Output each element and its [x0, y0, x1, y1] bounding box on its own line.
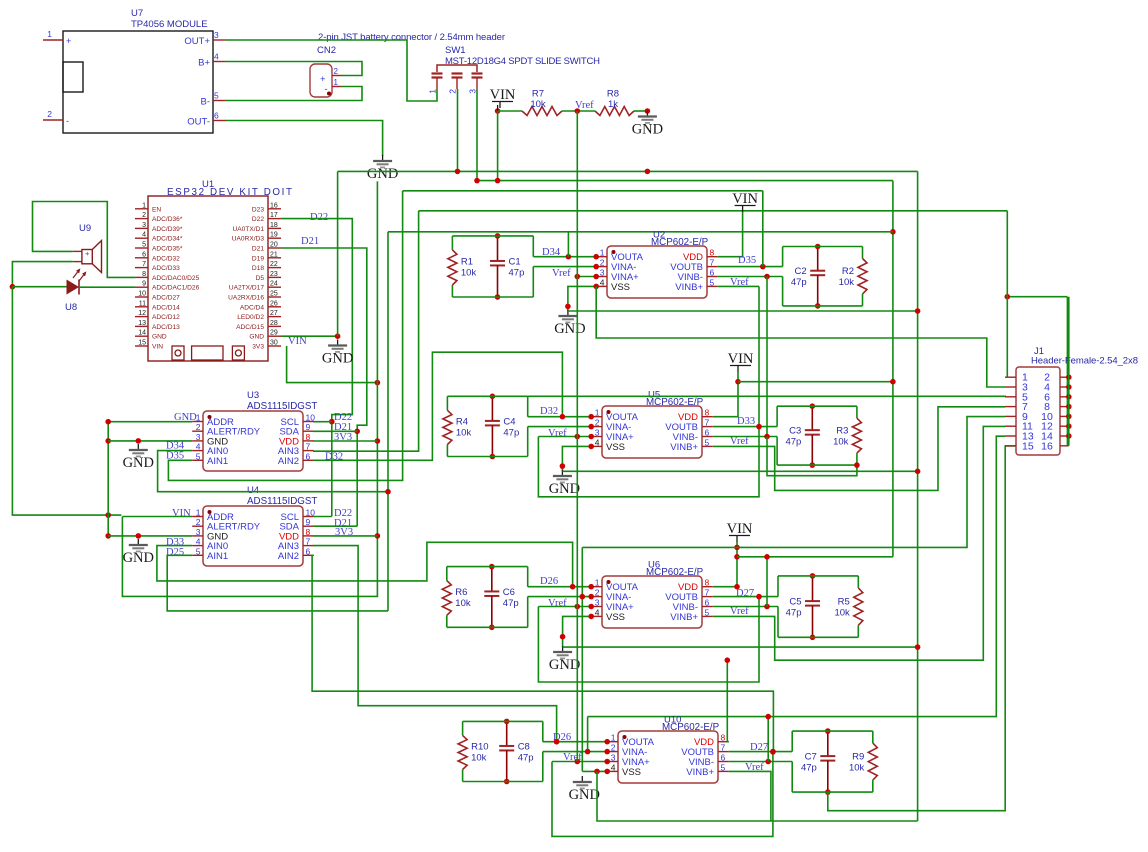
button footprint left on U1 — [172, 346, 184, 360]
svg-text:7: 7 — [721, 743, 726, 753]
pin 4 of J1 — [1060, 386, 1069, 388]
svg-text:D35: D35 — [738, 255, 756, 266]
pin 22 of U1 D18 — [268, 267, 281, 269]
svg-text:23: 23 — [270, 271, 278, 278]
resistor R3 10k — [856, 406, 858, 418]
svg-text:C6: C6 — [503, 587, 515, 598]
wire VIN horizontal at U6 — [737, 556, 893, 558]
wire RC loop top — [463, 720, 543, 722]
pin 5 of U1 ADC/D35* — [135, 247, 148, 249]
pin 3 of J1 — [1005, 386, 1016, 388]
pin 30 of U1 3V3 — [268, 345, 281, 347]
svg-text:4: 4 — [600, 277, 605, 287]
svg-text:ADC/DAC1/D26: ADC/DAC1/D26 — [152, 285, 200, 292]
svg-text:2: 2 — [47, 109, 52, 119]
wire Vref to U10 pin3 — [552, 761, 607, 763]
svg-text:4: 4 — [214, 52, 219, 62]
module U7 TP4056 — [63, 31, 213, 133]
wire VIN to R7 — [498, 110, 522, 112]
svg-text:OUT+: OUT+ — [184, 36, 210, 47]
svg-text:5: 5 — [214, 91, 219, 101]
svg-text:28: 28 — [270, 320, 278, 327]
wire U10 pin5 VINB+ — [729, 771, 771, 821]
svg-text:4: 4 — [142, 232, 146, 239]
wire Vref U-loop under U6 — [538, 597, 759, 682]
wire U6 pin5 VINB+ to J1 pin11 — [713, 426, 1005, 660]
pin 4 of U6 VSS — [591, 615, 602, 617]
wire U9 plus to ESP pin8 — [33, 202, 136, 278]
pin 15 of J1 — [1005, 445, 1016, 447]
pin 8 of U3 VDD — [303, 440, 314, 442]
pin 1 of U3 ADDR — [192, 421, 203, 423]
wire chain U2 pin6 down — [766, 277, 768, 436]
svg-text:1: 1 — [595, 408, 600, 418]
svg-text:18: 18 — [270, 222, 278, 229]
svg-text:U9: U9 — [79, 223, 91, 234]
svg-text:47p: 47p — [509, 267, 525, 278]
svg-text:Vref: Vref — [563, 752, 582, 763]
pin 3 of U4 GND — [192, 535, 203, 537]
svg-text:GND: GND — [249, 334, 264, 341]
wire U3 pin10 D22 — [313, 421, 332, 423]
svg-text:VSS: VSS — [606, 442, 625, 453]
ground GND at U6 — [562, 646, 564, 652]
svg-text:7: 7 — [710, 258, 715, 268]
pin 18 of U1 UA0TX/D1 — [268, 227, 281, 229]
wire LED anode — [12, 286, 66, 288]
wire U5 pin5 VINB+ to J1 pin7 — [713, 407, 1005, 491]
svg-text:10k: 10k — [456, 427, 472, 438]
pin 7 of U1 ADC/D33 — [135, 267, 148, 269]
wire J1 pin13 chain to U10 pin2 — [588, 436, 1005, 716]
pin 2 of U6 VINA- — [591, 596, 602, 598]
pin 8 of U6 VDD — [702, 586, 713, 588]
op-amp U10 MCP602-E/P — [618, 731, 718, 783]
svg-text:R8: R8 — [607, 89, 619, 100]
wire D21 from ESP pin20 — [281, 248, 367, 526]
wire VIN bus B — [477, 180, 893, 182]
svg-text:AIN1: AIN1 — [207, 456, 228, 467]
wire D34 vertical drop — [567, 232, 569, 257]
svg-text:1: 1 — [142, 202, 146, 209]
svg-text:5: 5 — [710, 277, 715, 287]
svg-text:VSS: VSS — [606, 612, 625, 623]
svg-text:5: 5 — [721, 762, 726, 772]
wire OUT- to GND — [225, 121, 383, 157]
ground GND at U2 — [567, 310, 569, 316]
wire U6 pin4 VSS to GND — [563, 616, 592, 647]
wire VIN to U2 pin8 — [718, 212, 743, 257]
svg-text:4: 4 — [196, 442, 201, 452]
svg-text:R4: R4 — [456, 416, 468, 427]
pin 13 of U1 ADC/D13 — [135, 325, 148, 327]
wire C8 loop to U10 pin2 — [543, 751, 607, 753]
wire U4 pin1 VIN — [122, 516, 192, 518]
resistor R9 10k — [872, 731, 874, 743]
pin 6 of J1 — [1060, 396, 1069, 398]
svg-text:CN2: CN2 — [317, 45, 336, 56]
wire Vref bus main vertical — [576, 111, 578, 762]
wire U5 VIN to right vertical — [738, 381, 893, 383]
wire U3 pin5 D35 stair — [168, 191, 402, 481]
wire RC loop bottom — [777, 464, 857, 466]
svg-text:U8: U8 — [65, 302, 77, 313]
pin 5 of U4 AIN1 — [192, 554, 203, 556]
pin 4 of U3 AIN0 — [192, 450, 203, 452]
wire R7 to Vref node — [562, 110, 595, 112]
svg-text:6: 6 — [721, 753, 726, 763]
svg-text:AIN1: AIN1 — [207, 551, 228, 562]
wire VIN to U5 pin8 — [713, 372, 738, 417]
IC U3 ADS1115IDGST — [203, 411, 303, 471]
wire U4 pin3 GND — [108, 535, 192, 537]
svg-text:+: + — [85, 249, 90, 258]
svg-text:C3: C3 — [789, 426, 801, 437]
pin 1 of U5 VOUTA — [591, 416, 602, 418]
svg-text:GND: GND — [632, 122, 663, 138]
svg-text:3: 3 — [196, 432, 201, 442]
pin 7 of U2 VOUTB — [707, 266, 718, 268]
op-amp U6 MCP602-E/P — [602, 576, 702, 628]
svg-text:3: 3 — [595, 428, 600, 438]
pin 7 of U5 VOUTB — [702, 426, 713, 428]
pin 16 of U1 D23 — [268, 208, 281, 210]
IC U1 ESP32 DEV KIT DOIT — [148, 196, 268, 361]
svg-text:8: 8 — [705, 578, 710, 588]
svg-text:D21: D21 — [252, 246, 264, 253]
svg-text:5: 5 — [196, 546, 201, 556]
wire RC loop bottom — [447, 456, 527, 458]
svg-text:D26: D26 — [540, 576, 558, 587]
wire RC loop top — [783, 246, 863, 248]
pin 5 of U10 VINB+ — [718, 770, 729, 772]
svg-text:D32: D32 — [540, 406, 558, 417]
svg-text:VINB+: VINB+ — [675, 282, 703, 293]
svg-text:47p: 47p — [791, 277, 807, 288]
pin stubs of U9 — [73, 250, 82, 252]
wire Vref to U6 pin3 — [538, 606, 591, 608]
svg-text:1: 1 — [428, 89, 438, 94]
svg-text:ADC/D15: ADC/D15 — [236, 324, 264, 331]
svg-text:D23: D23 — [252, 206, 264, 213]
svg-text:7: 7 — [705, 588, 710, 598]
svg-text:VIN: VIN — [727, 521, 753, 537]
svg-text:Vref: Vref — [730, 436, 749, 447]
wire Vref U-loop under U5 — [538, 427, 759, 497]
svg-text:15: 15 — [138, 340, 146, 347]
svg-text:11: 11 — [139, 300, 146, 307]
pin 2 of U5 VINA- — [591, 426, 602, 428]
wire U2 pin5 VINB+ — [718, 285, 759, 287]
svg-text:UA0RX/D3: UA0RX/D3 — [232, 236, 265, 243]
svg-text:GND: GND — [322, 351, 353, 367]
svg-text:VSS: VSS — [611, 282, 630, 293]
svg-text:2: 2 — [196, 517, 201, 527]
svg-text:VINB+: VINB+ — [670, 612, 698, 623]
pin 2 of U7 (-) — [43, 119, 63, 121]
svg-text:ADC/D35*: ADC/D35* — [152, 246, 183, 253]
svg-text:3: 3 — [196, 527, 201, 537]
svg-text:21: 21 — [270, 251, 278, 258]
wire LED net down left — [12, 287, 121, 515]
capacitor C5 47p — [812, 576, 814, 601]
svg-text:2: 2 — [595, 588, 600, 598]
wire U3 pin3 GND — [108, 440, 192, 442]
svg-text:Vref: Vref — [548, 598, 567, 609]
pin 29 of U1 GND — [268, 335, 281, 337]
svg-text:17: 17 — [270, 212, 278, 219]
svg-text:4: 4 — [595, 437, 600, 447]
ground GND at U7 OUT- — [382, 155, 384, 161]
pin 20 of U1 D21 — [268, 247, 281, 249]
svg-text:VINB+: VINB+ — [670, 442, 698, 453]
pin 6 of U10 VINB- — [718, 761, 729, 763]
svg-text:27: 27 — [270, 310, 278, 317]
capacitor C8 47p — [506, 721, 508, 746]
svg-text:5: 5 — [705, 437, 710, 447]
svg-text:EN: EN — [152, 206, 161, 213]
svg-text:UA2RX/D16: UA2RX/D16 — [228, 295, 264, 302]
ground GND at ESP pin29 — [337, 340, 339, 346]
resistor R1 10k — [451, 236, 453, 250]
pin 9 of U1 ADC/DAC1/D26 — [135, 286, 148, 288]
svg-text:10k: 10k — [530, 99, 546, 110]
svg-text:U3: U3 — [247, 390, 259, 401]
wire B+ to CN2 pin2 — [225, 62, 362, 76]
wire OUT+ to SW1 pin1 — [225, 40, 437, 101]
svg-text:ADC/D32: ADC/D32 — [152, 255, 180, 262]
svg-text:3: 3 — [142, 222, 146, 229]
svg-text:3: 3 — [468, 89, 478, 94]
svg-text:47p: 47p — [503, 427, 519, 438]
pin 13 of J1 — [1005, 435, 1016, 437]
wire GND bus stage1 — [568, 310, 918, 312]
pin 2 of U2 VINA- — [596, 266, 607, 268]
resistor R8 1k — [595, 107, 634, 116]
svg-text:5: 5 — [196, 451, 201, 461]
wire RC loop left edge — [791, 731, 793, 752]
pin 8 of U10 VDD — [718, 741, 729, 743]
svg-text:UA2TX/D17: UA2TX/D17 — [229, 285, 265, 292]
wire bus C drop to U2 pin7 — [762, 191, 764, 267]
svg-text:LED0/D2: LED0/D2 — [237, 314, 264, 321]
wire U2 pin6 VINB- — [718, 276, 783, 278]
button footprint right on U1 — [232, 346, 244, 360]
svg-text:AIN2: AIN2 — [278, 456, 299, 467]
svg-text:OUT-: OUT- — [187, 117, 210, 128]
wire LED cathode to ESP pin9 — [79, 286, 135, 288]
wire VIN flag down to VIN bus — [497, 111, 499, 181]
svg-text:D25: D25 — [166, 547, 184, 558]
pin 12 of J1 — [1060, 425, 1069, 427]
op-amp U5 MCP602-E/P — [602, 406, 702, 458]
pin 4 of U7 B+ — [213, 61, 225, 63]
pin 6 of U5 VINB- — [702, 436, 713, 438]
pin 11 of J1 — [1005, 425, 1016, 427]
svg-text:6: 6 — [705, 598, 710, 608]
svg-text:1: 1 — [196, 508, 201, 518]
wire RC loop left edge — [776, 406, 778, 426]
svg-text:-: - — [66, 116, 69, 126]
wire U9 minus — [12, 262, 72, 287]
wire U10 pin6 VINB- — [729, 761, 792, 763]
wire RC loop top — [778, 575, 858, 577]
svg-text:R1: R1 — [461, 256, 473, 267]
wire C1 loop to U2 pin2 — [533, 266, 596, 268]
pin 3 of U7 OUT+ — [213, 39, 225, 41]
svg-text:8: 8 — [705, 408, 710, 418]
svg-text:2: 2 — [611, 743, 616, 753]
wire J1 top horizontal — [419, 210, 1008, 212]
svg-text:AIN2: AIN2 — [278, 551, 299, 562]
capacitor C6 47p — [491, 567, 493, 592]
svg-text:C7: C7 — [805, 752, 817, 763]
svg-text:ADS1115IDGST: ADS1115IDGST — [247, 496, 317, 507]
svg-text:C8: C8 — [518, 741, 530, 752]
pin 8 of J1 — [1060, 406, 1069, 408]
svg-text:3: 3 — [595, 598, 600, 608]
svg-text:MCP602-E/P: MCP602-E/P — [646, 397, 704, 408]
svg-text:16: 16 — [1041, 440, 1053, 452]
svg-text:2: 2 — [448, 89, 458, 94]
svg-text:1: 1 — [47, 29, 52, 39]
wire RC loop left edge — [782, 247, 784, 267]
svg-text:+: + — [66, 36, 71, 46]
ground GND at U5 — [561, 470, 563, 476]
wire SW1 pin3 to VIN bus — [476, 89, 478, 181]
svg-text:MCP602-E/P: MCP602-E/P — [651, 237, 709, 248]
pin 5 of U7 B- — [213, 100, 225, 102]
wire U10 pin3 tail down — [552, 752, 773, 837]
pin 27 of U1 LED0/D2 — [268, 316, 281, 318]
pin 7 of U10 VOUTB — [718, 751, 729, 753]
pin 21 of U1 D19 — [268, 257, 281, 259]
svg-text:SW1: SW1 — [445, 45, 466, 56]
svg-text:6: 6 — [705, 428, 710, 438]
pin 1 of U6 VOUTA — [591, 586, 602, 588]
svg-text:C4: C4 — [503, 416, 515, 427]
capacitor C3 47p — [811, 406, 813, 430]
svg-text:B+: B+ — [198, 58, 210, 69]
svg-text:5: 5 — [705, 607, 710, 617]
wire U4 pin7 chain to U10 pin1 — [313, 546, 557, 742]
svg-text:MCP602-E/P: MCP602-E/P — [662, 722, 720, 733]
svg-text:1: 1 — [334, 78, 339, 87]
pin 5 of U2 VINB+ — [707, 285, 718, 287]
ground GND at U3 — [137, 444, 139, 450]
svg-text:10k: 10k — [455, 598, 471, 609]
pin 1 of U4 ADDR — [192, 516, 203, 518]
wire 3V3 vertical — [122, 181, 377, 596]
svg-text:1k: 1k — [608, 99, 618, 110]
svg-text:VIN: VIN — [172, 508, 191, 519]
wire U2 pin7 VOUTB — [718, 266, 783, 268]
svg-text:C2: C2 — [795, 266, 807, 277]
wire C6 loop to U6 pin2 — [528, 596, 592, 598]
svg-text:ADC/D13: ADC/D13 — [152, 324, 180, 331]
svg-text:D34: D34 — [542, 247, 561, 258]
wire RC loop right exits — [532, 236, 534, 257]
pin 3 of U3 GND — [192, 440, 203, 442]
wire U3 pin6 D32 — [313, 352, 562, 460]
pin 12 of U1 ADC/D12 — [135, 316, 148, 318]
wire U10 pin4 VSS to GND — [582, 770, 607, 772]
svg-text:9: 9 — [306, 517, 311, 527]
svg-text:GND: GND — [554, 321, 585, 337]
svg-text:VIN: VIN — [732, 191, 758, 207]
wire RC loop top — [792, 730, 873, 732]
wire D26 into U6 pin1 — [528, 586, 592, 588]
svg-text:ADC/D36*: ADC/D36* — [152, 216, 183, 223]
wire RC loop right exits — [527, 567, 529, 587]
svg-text:47p: 47p — [785, 437, 801, 448]
wire vertical to U10 GND — [581, 547, 583, 771]
svg-text:VIN: VIN — [490, 87, 516, 103]
pin 1 of J1 — [1005, 376, 1016, 378]
pin 25 of U1 UA2RX/D16 — [268, 296, 281, 298]
wire D34 horizontal — [388, 231, 893, 233]
svg-text:3V3: 3V3 — [252, 344, 264, 351]
pin 6 of U2 VINB- — [707, 276, 718, 278]
svg-text:2: 2 — [334, 67, 339, 76]
pin 14 of U1 GND — [135, 335, 148, 337]
svg-text:6: 6 — [306, 451, 311, 461]
pin 2 of CN2 — [332, 75, 341, 77]
wire U4 pin6 down to U10 pin7 — [312, 555, 773, 752]
svg-text:D21: D21 — [301, 236, 319, 247]
resistor R5 10k — [857, 576, 859, 588]
wire B- to CN2 pin1 — [225, 87, 362, 101]
svg-text:7: 7 — [705, 418, 710, 428]
svg-text:D22: D22 — [252, 216, 264, 223]
resistor R4 10k — [446, 396, 448, 410]
svg-text:19: 19 — [270, 232, 278, 239]
wire U10 pin7 VOUTB — [729, 751, 792, 753]
pin 1 of U10 VOUTA — [607, 741, 618, 743]
wire RC loop top — [777, 405, 857, 407]
wire Vref to U2 pin3 — [577, 276, 596, 278]
wire U3 pin9 D21 — [313, 430, 357, 432]
wire U2 pin4 to J1 pin3 — [596, 286, 1005, 387]
wire U4 pin5 D25 stair — [167, 555, 388, 611]
svg-text:R3: R3 — [836, 426, 848, 437]
svg-text:4: 4 — [595, 607, 600, 617]
svg-text:R7: R7 — [532, 89, 544, 100]
svg-text:C5: C5 — [789, 597, 801, 608]
svg-text:3: 3 — [600, 268, 605, 278]
wire chain U2 pin5 down — [758, 286, 760, 426]
wire U4 pin8 3V3 — [313, 535, 377, 537]
wire GND bus A — [338, 170, 918, 172]
wire U3 pin4 D34 stair — [158, 451, 388, 492]
capacitor C4 47p — [491, 396, 493, 421]
svg-text:26: 26 — [270, 300, 278, 307]
resistor R10 10k — [462, 721, 464, 735]
pin 10 of U4 SCL — [303, 516, 314, 518]
wire feed U6 pin6 from VIN line — [766, 557, 768, 607]
wire Vref to U5 pin3 — [538, 436, 591, 438]
svg-text:5: 5 — [142, 242, 146, 249]
pin 8 of U4 VDD — [303, 535, 314, 537]
svg-text:30: 30 — [270, 340, 278, 347]
svg-text:ADC/D27: ADC/D27 — [152, 295, 180, 302]
svg-text:Vref: Vref — [730, 606, 749, 617]
svg-text:47p: 47p — [518, 752, 534, 763]
svg-text:14: 14 — [138, 330, 146, 337]
wire D22 from ESP pin17 — [281, 219, 352, 517]
wire J1 pin1 vertical — [1006, 211, 1008, 377]
wire ESP pin30 down — [287, 346, 378, 383]
